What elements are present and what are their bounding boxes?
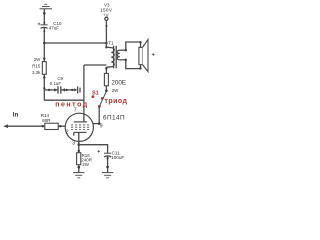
node dot — [42, 125, 44, 127]
node dot — [139, 67, 141, 69]
node dot below ground — [43, 12, 46, 15]
ground (top, above C10) — [40, 4, 53, 9]
svg-text:47uF: 47uF — [49, 26, 60, 31]
node dot — [43, 30, 45, 32]
svg-text:In: In — [13, 111, 19, 118]
svg-text:2W: 2W — [82, 162, 89, 167]
svg-text:+V: +V — [103, 12, 109, 17]
wire switch to pin 9 — [98, 106, 100, 123]
ground (below R16) — [73, 173, 85, 178]
resistor 200E 2W — [104, 73, 126, 92]
svg-text:S1: S1 — [92, 90, 99, 96]
svg-text:2W: 2W — [112, 88, 119, 93]
resistor R15 3.3k 2W — [32, 57, 46, 75]
switch S1 contact pentode — [92, 95, 95, 98]
svg-text:2W: 2W — [34, 57, 41, 62]
wire ground to C10 — [43, 9, 45, 25]
wire R15 down to corner — [43, 74, 45, 100]
node dot — [78, 150, 80, 152]
wire input — [6, 125, 45, 127]
tube cathode — [74, 132, 87, 135]
capacitor C11 100uF — [97, 150, 124, 160]
svg-text:6П14П: 6П14П — [103, 114, 125, 121]
node dot — [59, 125, 61, 127]
input arrow — [3, 124, 8, 128]
tube 6П14П envelope — [65, 113, 93, 141]
svg-text:T1: T1 — [108, 41, 114, 46]
svg-text:3.3k: 3.3k — [32, 70, 41, 75]
svg-text:пентод: пентод — [55, 102, 89, 109]
svg-text:0.1uF: 0.1uF — [50, 81, 62, 86]
svg-text:триод: триод — [105, 98, 128, 105]
wire rail to R15 — [43, 43, 45, 62]
resistor R16 240R 2W — [77, 153, 92, 167]
wire secondary top to speaker — [126, 42, 141, 50]
wire pin 9 — [93, 123, 99, 125]
transformer T1 secondary winding — [117, 50, 126, 60]
capacitor C9 0.1uF — [44, 76, 80, 93]
wire plate horizontal — [84, 64, 107, 66]
wire cathode down — [78, 132, 80, 152]
svg-text:R15: R15 — [32, 63, 41, 68]
speaker — [139, 39, 155, 71]
switch S1 lever — [99, 91, 106, 106]
wire R14 to grid — [58, 125, 65, 127]
svg-text:9: 9 — [100, 124, 103, 130]
capacitor C10 47uF — [38, 21, 62, 30]
node dot — [78, 143, 81, 146]
node dot — [43, 76, 45, 78]
terminal V3 +150V — [100, 2, 113, 20]
tube grids — [71, 125, 89, 130]
resistor R14 68R — [41, 113, 58, 130]
node dot — [106, 166, 109, 169]
switch S1 common — [98, 105, 101, 108]
svg-text:100uF: 100uF — [111, 155, 124, 160]
wire secondary bottom to speaker — [126, 60, 141, 69]
wire C11 to ground — [107, 156, 109, 172]
node dot — [105, 25, 107, 27]
wire cathode to C11 — [79, 145, 108, 154]
wire pentode feed — [44, 99, 84, 101]
svg-text:3: 3 — [72, 141, 75, 147]
wire V3 to rail — [105, 20, 107, 43]
wire C10 to rail — [43, 28, 45, 43]
svg-text:7: 7 — [74, 108, 77, 114]
svg-text:2: 2 — [66, 130, 69, 136]
node junction left — [43, 42, 46, 45]
wire R16 to ground — [78, 165, 80, 173]
ground (below C11) — [102, 173, 114, 178]
wire 200E to switch — [105, 86, 107, 91]
node dot — [98, 122, 101, 125]
node dot — [125, 49, 127, 51]
node dot — [139, 41, 141, 43]
node dot — [43, 57, 45, 59]
transformer T1 core — [114, 46, 117, 69]
node dot — [78, 166, 81, 169]
node dot — [43, 87, 45, 89]
tube anode — [74, 114, 87, 122]
node junction right — [105, 42, 108, 45]
node dot — [125, 59, 127, 61]
svg-text:200E: 200E — [111, 79, 126, 86]
switch S1 contact triode — [101, 97, 104, 100]
wire plate vertical to tube — [83, 65, 85, 122]
wire B+ rail — [44, 42, 106, 44]
svg-text:68R: 68R — [42, 118, 51, 123]
node dot — [107, 157, 109, 159]
node dot — [105, 89, 108, 92]
transformer T1 primary winding — [105, 43, 114, 73]
